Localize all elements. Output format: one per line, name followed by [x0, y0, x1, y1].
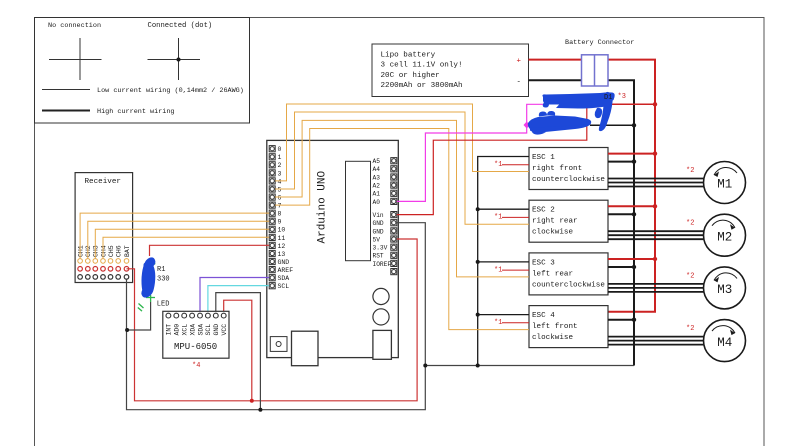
junction dots black rail: [125, 123, 636, 412]
svg-text:3: 3: [278, 170, 282, 177]
svg-text:Receiver: Receiver: [85, 178, 121, 186]
svg-text:*2: *2: [686, 272, 694, 280]
svg-text:3.3V: 3.3V: [373, 245, 388, 252]
svg-text:R1: R1: [157, 266, 165, 274]
svg-text:6: 6: [278, 195, 282, 202]
wire ESC4 BEC red stub, note *1: [494, 319, 529, 327]
motor M4: [686, 320, 746, 362]
wire pin 5 to ESC2 signal: [275, 112, 529, 224]
node magenta junction diamond: [524, 122, 530, 129]
svg-text:5: 5: [278, 186, 282, 193]
svg-text:CH6: CH6: [116, 245, 123, 257]
svg-text:RST: RST: [373, 253, 384, 260]
svg-text:clockwise: clockwise: [532, 229, 573, 237]
wire SCL cyan: [208, 286, 269, 314]
svg-text:MPU-6050: MPU-6050: [174, 342, 217, 352]
motor M2: [686, 214, 746, 256]
svg-text:LED: LED: [157, 301, 170, 309]
svg-text:SDA: SDA: [197, 324, 204, 336]
svg-text:Battery Connector: Battery Connector: [565, 39, 634, 47]
svg-text:CH3: CH3: [93, 245, 100, 257]
svg-text:*1: *1: [494, 214, 502, 222]
receiver pin labels: [77, 245, 130, 257]
svg-text:VCC: VCC: [221, 324, 228, 336]
svg-text:*3: *3: [618, 93, 626, 101]
wire battery + high current: [529, 60, 656, 312]
svg-text:4: 4: [278, 178, 282, 185]
wire CH2 to pin 9: [88, 221, 269, 258]
svg-text:CH4: CH4: [100, 245, 107, 257]
wire GND to receiver BAT -: [127, 223, 426, 410]
wire ground bus bottom: [425, 365, 634, 367]
svg-text:left rear: left rear: [532, 270, 573, 278]
svg-text:Lipo battery: Lipo battery: [381, 52, 436, 60]
wire LED cathode to ground: [127, 302, 151, 330]
MPU pin labels: [166, 324, 228, 336]
svg-text:SCL: SCL: [205, 324, 212, 336]
svg-text:M1: M1: [717, 178, 732, 192]
wire R1 to pin 12 red: [150, 245, 270, 256]
ESC 4: [529, 306, 608, 348]
ESC 2: [529, 200, 608, 242]
Arduino UNO board U1: [267, 140, 399, 365]
svg-text:M2: M2: [717, 230, 732, 244]
svg-text:Vin: Vin: [373, 212, 384, 219]
Arduino right pin header power: [391, 212, 397, 275]
svg-text:A1: A1: [373, 191, 381, 198]
legend box: [35, 18, 250, 124]
svg-text:right rear: right rear: [532, 218, 578, 226]
svg-text:Arduino UNO: Arduino UNO: [317, 170, 329, 243]
junction dots red rail: [250, 102, 657, 403]
wire A0 to D1 sense magenta: [397, 104, 545, 201]
motor M1: [686, 162, 746, 204]
svg-text:AREF: AREF: [278, 267, 294, 274]
wire pin 6 to ESC3 signal: [275, 120, 529, 277]
svg-text:GND: GND: [373, 228, 384, 235]
svg-text:right front: right front: [532, 165, 582, 173]
svg-text:2200mAh or 3800mAh: 2200mAh or 3800mAh: [381, 82, 463, 90]
Arduino left pin header: [269, 146, 275, 289]
wire CH4 to pin 11: [103, 237, 269, 258]
ESC 3: [529, 253, 608, 295]
wire motor M1 three phase: [608, 179, 704, 187]
svg-text:A2: A2: [373, 183, 381, 190]
svg-text:20C or higher: 20C or higher: [381, 72, 440, 80]
wire CH3 to pin 10: [95, 229, 269, 258]
svg-text:CH2: CH2: [85, 245, 92, 257]
svg-text:ESC 3: ESC 3: [532, 259, 555, 267]
wire Vin to D1: [397, 107, 587, 215]
svg-text:*2: *2: [686, 220, 694, 228]
receiver signal pin row: [78, 259, 129, 264]
svg-text:Connected (dot): Connected (dot): [148, 22, 213, 30]
blue ink scribble over R1 LED: [141, 257, 155, 297]
wire battery - high current: [529, 80, 635, 365]
motor M3: [686, 267, 746, 309]
blue ink scribble over D1 upper: [542, 92, 614, 131]
Lipo battery BT1: [372, 44, 529, 97]
svg-text:GND: GND: [373, 220, 384, 227]
svg-text:A4: A4: [373, 166, 381, 173]
svg-text:left front: left front: [532, 323, 578, 331]
svg-text:10: 10: [278, 227, 286, 234]
svg-text:INT: INT: [166, 324, 173, 336]
svg-text:M3: M3: [717, 283, 732, 297]
svg-text:3 cell 11.1V only!: 3 cell 11.1V only!: [381, 62, 463, 70]
wire MPU GND: [216, 293, 261, 410]
svg-text:A5: A5: [373, 158, 381, 165]
wire ESC1 BEC red stub, note *1: [494, 161, 529, 169]
svg-text:5V: 5V: [373, 236, 381, 243]
svg-text:Low current wiring (0,14mm2 /: Low current wiring (0,14mm2 / 26AWG): [97, 87, 244, 95]
wire CH1 to pin 8: [80, 213, 269, 259]
MPU pin circles: [166, 313, 226, 318]
low current wiring legend: [42, 87, 244, 95]
svg-text:BAT: BAT: [124, 245, 131, 257]
svg-text:12: 12: [278, 243, 286, 250]
svg-text:ESC 1: ESC 1: [532, 154, 555, 162]
svg-text:GND: GND: [213, 324, 220, 336]
svg-text:M4: M4: [717, 336, 732, 350]
blue ink scribble over D1 lower: [528, 111, 591, 135]
svg-text:*1: *1: [494, 266, 502, 274]
svg-text:XCL: XCL: [182, 324, 189, 336]
svg-text:*2: *2: [686, 167, 694, 175]
svg-text:*2: *2: [686, 325, 694, 333]
svg-text:*1: *1: [494, 161, 502, 169]
wire motor M3 three phase: [608, 284, 704, 292]
svg-text:2: 2: [278, 162, 282, 169]
wire pin 7 to ESC4 signal: [275, 129, 529, 330]
svg-text:*1: *1: [494, 319, 502, 327]
svg-text:7: 7: [278, 203, 282, 210]
svg-text:+: +: [517, 57, 522, 65]
svg-text:13: 13: [278, 251, 286, 258]
svg-text:SDA: SDA: [278, 275, 290, 282]
svg-text:SCL: SCL: [278, 283, 290, 290]
svg-text:*4: *4: [192, 362, 200, 370]
svg-text:9: 9: [278, 219, 282, 226]
wire SDA purple: [200, 278, 269, 314]
wire diode D1 anode red: [612, 103, 655, 105]
svg-text:11: 11: [278, 235, 286, 242]
svg-text:GND: GND: [278, 259, 290, 266]
svg-text:330: 330: [157, 276, 170, 284]
wire ESC2 BEC red stub, note *1: [494, 214, 529, 222]
svg-text:ESC 2: ESC 2: [532, 207, 555, 215]
svg-text:No connection: No connection: [48, 22, 101, 30]
svg-text:clockwise: clockwise: [532, 334, 573, 342]
wire diode D1 cathode black: [590, 124, 634, 126]
MPU-6050 U2: [163, 311, 229, 358]
svg-text:counterclockwise: counterclockwise: [532, 281, 605, 289]
wire pin 4 to ESC1 signal: [275, 104, 529, 181]
Arduino right pin header analog: [391, 158, 397, 205]
svg-text:A3: A3: [373, 174, 381, 181]
Receiver: [75, 173, 133, 283]
no-connection cross symbol: [49, 38, 102, 80]
svg-text:CH5: CH5: [108, 245, 115, 257]
LED D2 green remnants: [138, 262, 155, 312]
svg-text:CH1: CH1: [77, 245, 84, 257]
high current wiring legend: [42, 108, 175, 116]
Battery Connector J1: [565, 39, 634, 86]
svg-text:8: 8: [278, 211, 282, 218]
connected cross symbol: [148, 38, 201, 80]
wire ESC signal ground rail: [478, 157, 529, 366]
wire ESC red outputs to +rail: [608, 154, 655, 259]
wire motor M2 three phase: [608, 231, 704, 239]
svg-text:XDA: XDA: [189, 324, 196, 336]
svg-text:High current wiring: High current wiring: [97, 108, 175, 116]
receiver gnd pin row: [78, 275, 129, 280]
svg-text:-: -: [517, 78, 521, 86]
ESC 1: [529, 148, 608, 190]
svg-text:A0: A0: [373, 199, 381, 206]
svg-text:0: 0: [278, 146, 282, 153]
svg-text:AD0: AD0: [174, 324, 181, 336]
wire 5V to receiver BAT +: [127, 239, 418, 401]
svg-text:ESC 4: ESC 4: [532, 312, 555, 320]
svg-text:counterclockwise: counterclockwise: [532, 176, 605, 184]
svg-text:D1: D1: [604, 94, 612, 102]
wire ESC black outputs to -rail: [608, 162, 634, 320]
svg-text:IOREF: IOREF: [373, 261, 392, 268]
svg-text:1: 1: [278, 154, 282, 161]
wire motor M4 three phase: [608, 337, 704, 345]
wire MPU VCC red: [224, 300, 252, 401]
receiver vcc pin row: [78, 267, 129, 272]
wire ESC3 BEC red stub, note *1: [494, 266, 529, 274]
